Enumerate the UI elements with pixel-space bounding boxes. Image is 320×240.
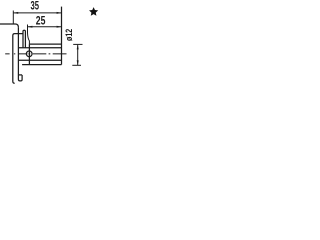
ø12 extension bottom xyxy=(72,64,81,66)
arrowhead 25 left xyxy=(28,26,33,28)
centerline xyxy=(5,53,66,55)
collar xyxy=(23,30,25,48)
horizontal line H_c xyxy=(18,59,61,61)
diameter text ø12 rotated xyxy=(63,28,74,41)
extension line for 25 merging into neck arc xyxy=(28,25,30,45)
dimension text 35 xyxy=(31,0,40,13)
svg-text:ø12: ø12 xyxy=(63,28,74,41)
horizontal line H_a xyxy=(18,47,61,49)
ø12 extension top xyxy=(73,43,82,45)
dimension text 25 xyxy=(36,14,46,28)
notch top line xyxy=(18,74,22,76)
arrowhead 35 left xyxy=(13,12,18,14)
arrowhead 25 right xyxy=(57,26,62,28)
extension line right shared / shaft right edge xyxy=(61,7,63,65)
dimension line 35 xyxy=(13,12,61,14)
arrowhead 35 right xyxy=(57,12,62,14)
head top outline with rounded corner xyxy=(0,24,18,27)
dimension line 25 xyxy=(28,26,62,28)
left edge V0 with hooks xyxy=(13,34,23,84)
arrowhead ø12 up xyxy=(77,45,79,50)
head right edge V1 with bottom notch xyxy=(18,27,22,81)
shaft top line xyxy=(29,43,61,45)
star marker xyxy=(89,7,98,16)
shaft left edge xyxy=(28,44,30,64)
extension line left for 35 xyxy=(12,11,14,24)
svg-text:25: 25 xyxy=(36,14,46,28)
svg-text:35: 35 xyxy=(31,0,40,13)
ø12 dimension line xyxy=(77,45,79,65)
shaft bottom line xyxy=(22,64,61,66)
arrowhead ø12 down xyxy=(77,60,79,65)
cross hole circle xyxy=(26,51,32,57)
